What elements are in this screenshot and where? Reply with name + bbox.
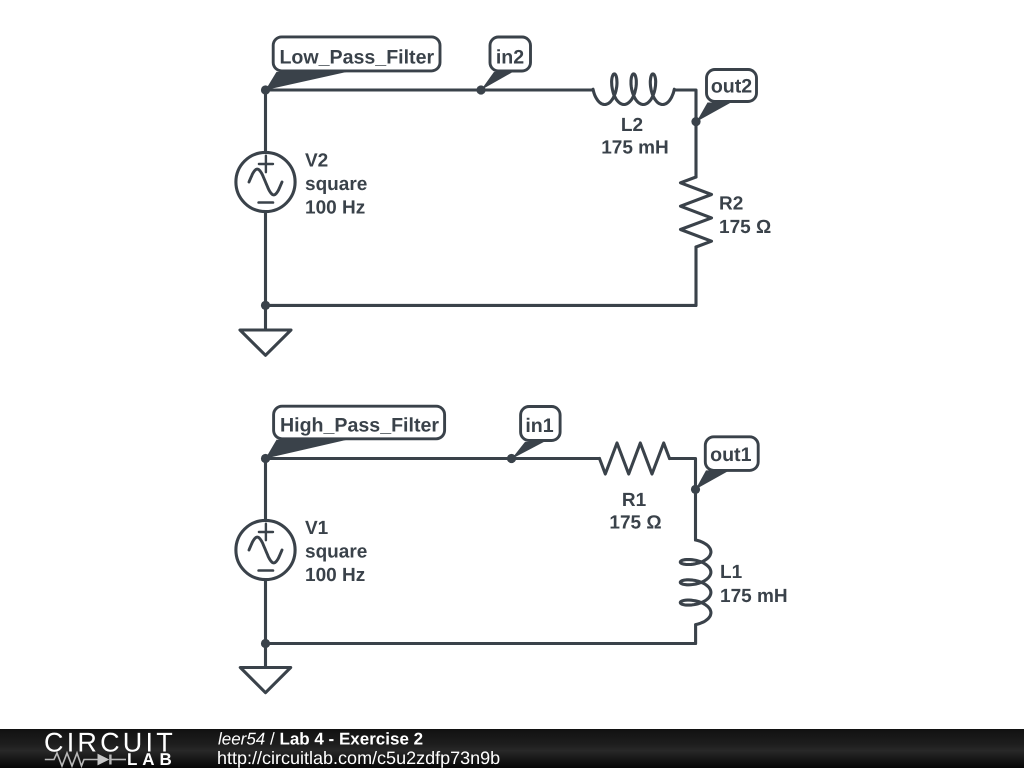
svg-text:R1: R1: [622, 490, 647, 511]
svg-text:in1: in1: [525, 415, 553, 437]
svg-text:V1: V1: [305, 518, 329, 539]
svg-text:V2: V2: [305, 151, 328, 172]
svg-text:175 mH: 175 mH: [601, 138, 669, 159]
svg-text:100 Hz: 100 Hz: [305, 565, 365, 586]
svg-text:175 Ω: 175 Ω: [719, 217, 771, 238]
svg-text:L2: L2: [621, 115, 643, 136]
svg-text:out1: out1: [710, 444, 751, 466]
svg-text:High_Pass_Filter: High_Pass_Filter: [280, 415, 439, 437]
svg-text:out2: out2: [711, 76, 752, 98]
svg-text:http://circuitlab.com/c5u2zdfp: http://circuitlab.com/c5u2zdfp73n9b: [217, 748, 500, 768]
svg-text:100 Hz: 100 Hz: [305, 197, 365, 218]
svg-text:LAB: LAB: [127, 750, 177, 768]
svg-text:175 Ω: 175 Ω: [609, 513, 661, 534]
svg-text:Low_Pass_Filter: Low_Pass_Filter: [279, 47, 434, 69]
svg-text:square: square: [305, 541, 367, 562]
svg-text:in2: in2: [496, 47, 524, 69]
svg-text:L1: L1: [720, 562, 743, 583]
svg-text:square: square: [305, 174, 367, 195]
svg-text:175 mH: 175 mH: [720, 586, 788, 607]
svg-text:leer54 / Lab 4 - Exercise 2: leer54 / Lab 4 - Exercise 2: [218, 730, 423, 749]
svg-text:R2: R2: [719, 194, 743, 215]
